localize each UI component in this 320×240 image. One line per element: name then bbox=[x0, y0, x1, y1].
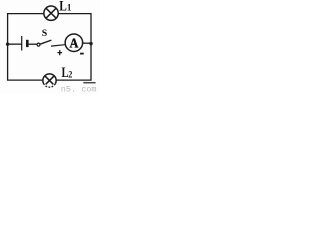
svg-text:2: 2 bbox=[68, 69, 73, 80]
svg-text:S: S bbox=[42, 28, 48, 39]
svg-text:1: 1 bbox=[67, 3, 72, 13]
svg-text:n5. com: n5. com bbox=[61, 85, 97, 94]
svg-text:A: A bbox=[70, 35, 79, 51]
